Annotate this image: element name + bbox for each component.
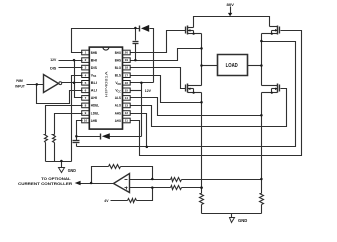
svg-text:ALO: ALO [115,104,122,108]
svg-text:GND: GND [238,218,247,223]
svg-text:11: 11 [125,119,129,123]
svg-text:13: 13 [125,104,129,108]
svg-text:AHB: AHB [91,119,98,123]
svg-text:14: 14 [125,96,129,100]
svg-text:BLS: BLS [115,73,122,77]
svg-text:CURRENT CONTROLLER: CURRENT CONTROLLER [18,181,72,186]
svg-text:17: 17 [125,73,129,77]
svg-text:ALS: ALS [115,96,122,100]
svg-text:10: 10 [84,119,88,123]
svg-text:INPUT: INPUT [15,84,25,88]
svg-text:HIP4081A: HIP4081A [105,70,109,97]
svg-text:BHO: BHO [115,51,122,55]
svg-text:ALI: ALI [91,89,97,93]
svg-text:80V: 80V [227,2,235,7]
svg-text:AHO: AHO [115,119,122,123]
svg-text:LDEL: LDEL [91,111,99,115]
svg-text:BHS: BHS [115,58,122,62]
svg-text:DIS: DIS [50,65,57,70]
svg-text:PWM: PWM [16,79,23,83]
svg-text:15: 15 [125,88,129,92]
svg-text:19: 19 [125,58,129,62]
svg-text:12V: 12V [50,57,56,62]
svg-text:18: 18 [125,66,129,70]
svg-text:BLI: BLI [91,81,97,85]
svg-text:16: 16 [125,81,129,85]
svg-text:12V: 12V [145,88,152,93]
svg-text:BHB: BHB [91,51,98,55]
svg-text:GND: GND [68,168,77,173]
svg-text:20: 20 [125,51,129,55]
svg-text:BLO: BLO [115,66,122,70]
svg-text:LOAD: LOAD [226,63,239,69]
svg-text:BHI: BHI [91,58,97,62]
svg-text:HDEL: HDEL [91,104,99,108]
svg-text:DIS: DIS [91,66,98,70]
svg-text:AHI: AHI [91,96,97,100]
svg-text:AHS: AHS [115,111,122,115]
svg-text:12: 12 [125,111,129,115]
